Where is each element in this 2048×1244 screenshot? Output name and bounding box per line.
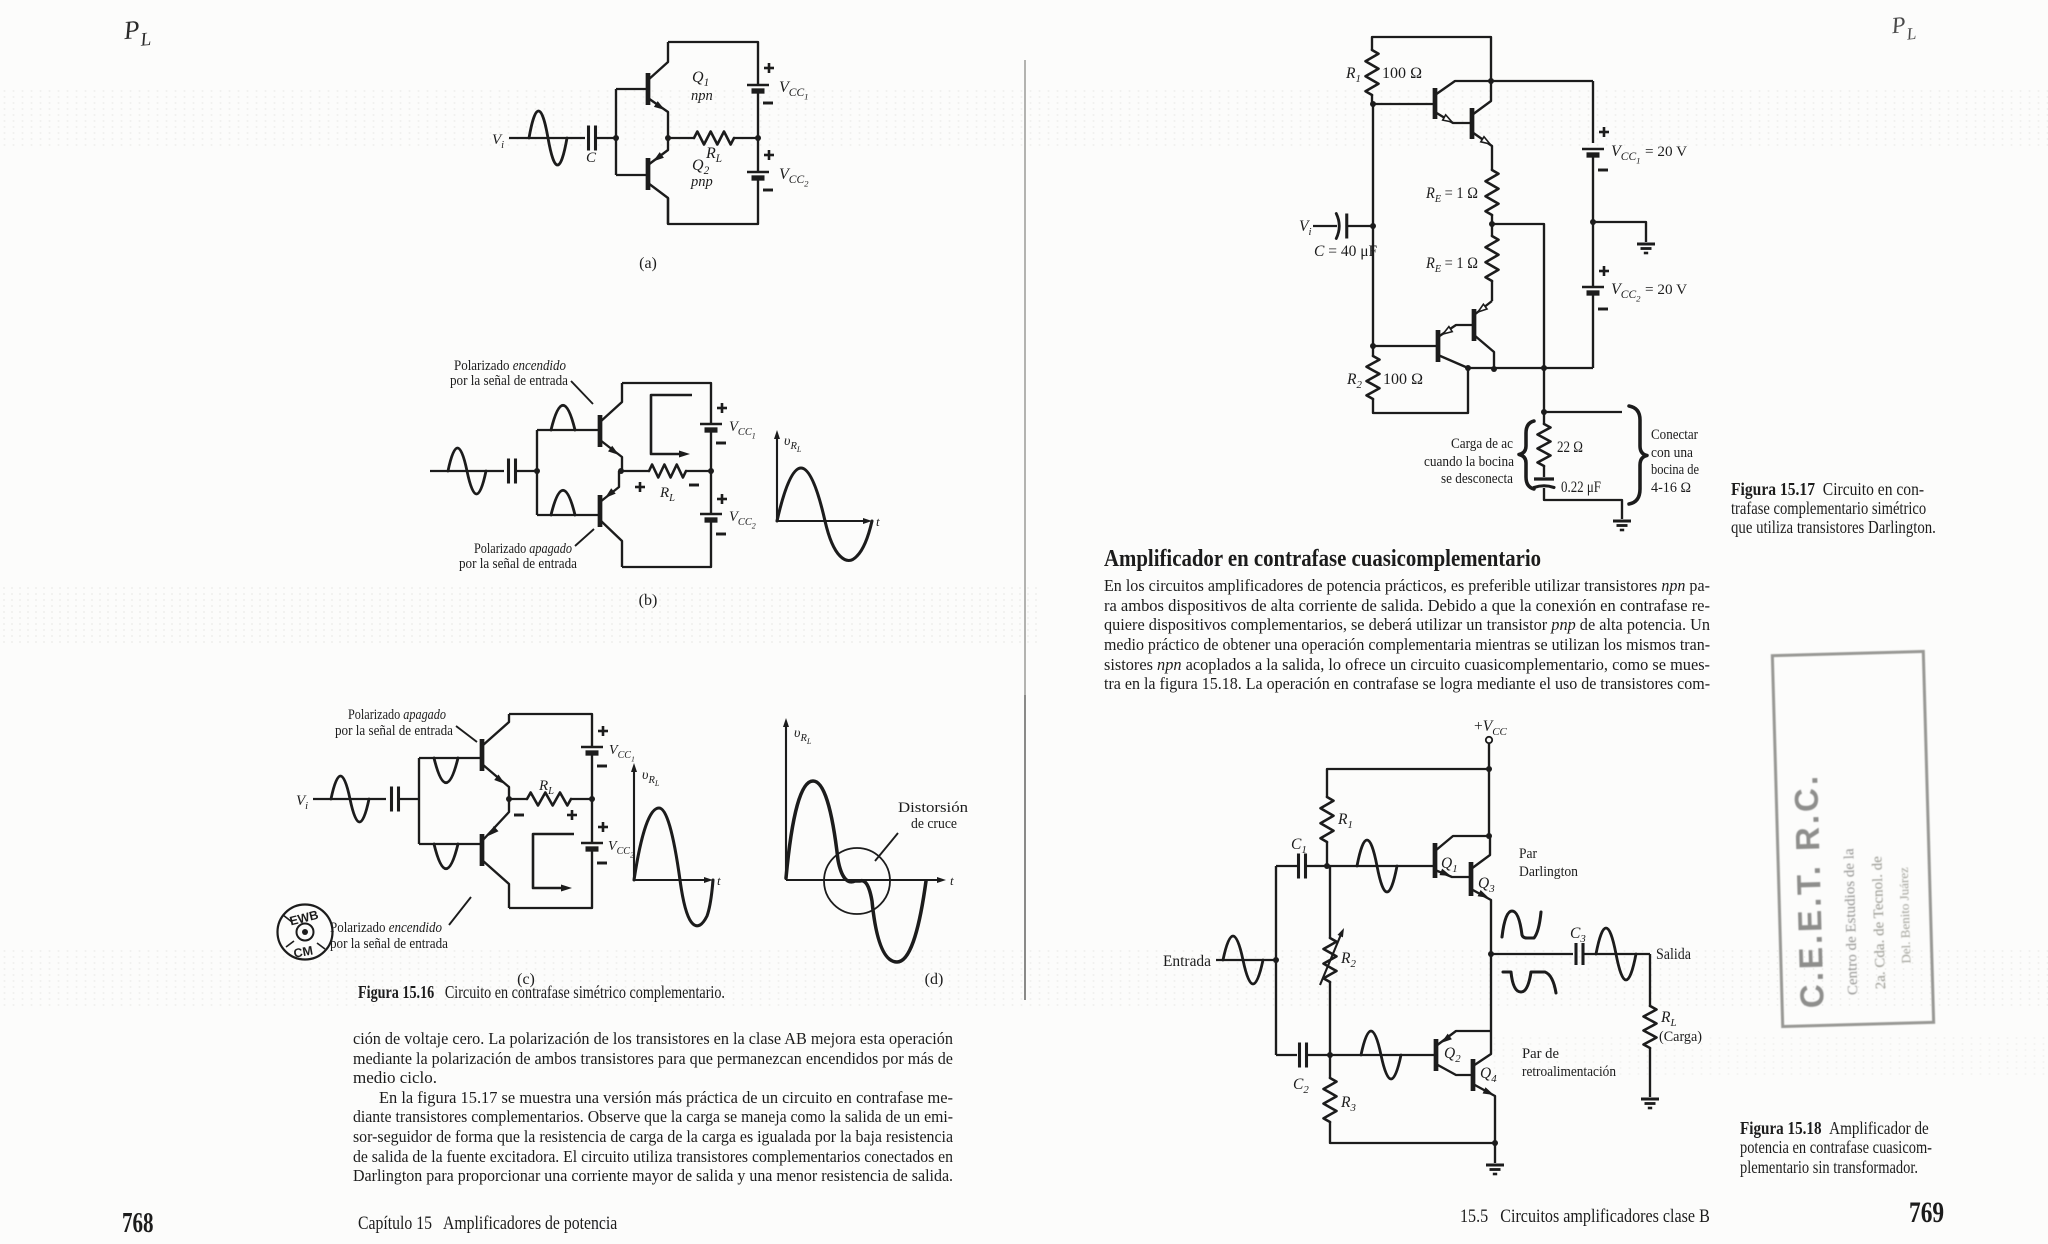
f18 supply terminal circle [1486,737,1492,743]
f18 positive half waveform at output [1502,911,1541,938]
scanner noise band lower [0,948,2048,1006]
f17 resistor RE upper [1486,170,1499,215]
svg-text:R2: R2 [1346,371,1362,391]
fig(b) transistor Q2 emitter lead with arrow [600,471,619,502]
fig(c) minus sign VCC2 [597,862,607,865]
scanner noise band right of fig 15.18 [1490,1035,2048,1075]
fig(c) current loop arrow [533,834,574,888]
library rubber stamp (faint, rotated) [1771,650,1935,1028]
fig(c) graph: time axis [634,879,707,881]
svg-text:RE = 1 Ω: RE = 1 Ω [1425,255,1478,275]
f17 wire 22 ohm to cap [1543,466,1545,477]
handwritten mark P_L top-right [1890,11,1917,46]
fig(a) wire: upper base branch [616,88,646,90]
f18 sine after C3 [1596,928,1636,980]
f17 node: Q2 base node [1370,343,1376,349]
fig(a) transistor Q1 (npn): base bar [646,73,651,105]
fig(b) wire RL to right bus [686,470,711,472]
svg-text:retroalimentación: retroalimentación [1522,1064,1616,1080]
f18 ground (load) [1641,1097,1659,1100]
f18 negative half waveform at output [1503,972,1556,993]
fig(c) transistor Q2 (pnp): base bar [480,834,485,866]
f17 wire R1 bottom to base node [1371,95,1373,104]
f18 Q4 collector lead [1473,1031,1491,1066]
f18 R2 wiper arrow [1320,932,1342,985]
fig(c) wire right bus middle [591,753,593,843]
svg-text:C2: C2 [1293,1076,1309,1096]
fig(c) battery VCC2 [581,842,603,845]
EWB disc hatch lines [283,915,292,922]
svg-text:100 Ω: 100 Ω [1383,371,1423,388]
fig(b) upper half-sine pulse (positive) [551,405,575,430]
f17 wire speaker tap to bracket [1544,411,1622,413]
fig(d) distorted sine waveform with crossover flat [786,781,926,962]
f17 wire base node to Q2a [1373,345,1438,347]
fig(c) graph: vertical axis [633,769,635,880]
svg-text:C3: C3 [1570,925,1586,945]
fig(c) coupling capacitor [390,787,393,812]
f17 wire: right bus [1592,81,1594,143]
f17 transistor Q2a (pnp darlington input): base bar [1436,330,1441,362]
fig(a) minus sign of VCC2 [763,189,773,192]
f17 transistor Q1b (npn darlington output): base bar [1470,108,1475,139]
f18 wire R3 to bottom rail [1330,1122,1495,1143]
fig(c) node: output junction [506,796,512,802]
f17 battery VCC1 [1582,148,1604,151]
svg-text:por la señal de entrada: por la señal de entrada [335,723,453,739]
svg-text:Darlington: Darlington [1519,864,1578,880]
svg-text:R1: R1 [1345,65,1361,85]
f18 wire base node to R2 [1329,866,1331,938]
svg-text:4-16 Ω: 4-16 Ω [1651,480,1691,496]
f17 plus sign VCC1 [1599,131,1609,134]
caption figura 15.17 [1731,480,1980,536]
f18 Q3 collector lead [1471,836,1490,869]
f17 node: output node [1489,221,1495,227]
fig(a) battery VCC1 [747,84,769,87]
f17 Q1b collector lead [1472,81,1491,115]
f17 input wire Vi to capacitor [1313,225,1337,227]
fig(b) minus sign VCC2 [716,533,726,536]
f18 sine between C2 and Q2 [1361,1031,1401,1079]
f18 node: Q1 base node [1324,863,1330,869]
svg-text:(a): (a) [639,255,657,272]
f17 wire to ground stub [1593,222,1646,242]
svg-text:VCC2: VCC2 [729,509,756,531]
fig(b) node: output junction [618,468,624,474]
f17 Q2a emitter lead with arrow [1438,325,1474,337]
f18 node: output node [1488,951,1494,957]
svg-text:Q2: Q2 [1444,1045,1461,1065]
fig(b) graph sine waveform [777,468,872,561]
fig(b) wire: input bus vertical [536,430,538,515]
f18 wire junction to Q2 with sine [1330,1054,1434,1056]
fig(a) input wire from Vi to capacitor C [509,137,585,139]
fig(c) transistor Q2 emitter lead with arrow [482,799,509,841]
fig(a) input sine symbol [529,111,567,165]
f17 minus sign VCC1 [1598,169,1608,172]
fig(a) transistor Q2 (pnp): base bar [646,158,651,190]
handwritten mark P_L top-left [122,14,152,53]
f18 resistor RL (load) [1644,1006,1657,1048]
f17 wire: lower collector rail [1468,367,1593,369]
svg-text:t: t [717,873,721,888]
f18 transistor Q1 (npn): base bar [1433,843,1438,878]
fig(b) battery VCC2 [700,513,722,516]
svg-text:R1: R1 [1337,811,1353,831]
f17 coupling capacitor C 40uF [1336,214,1339,239]
f18 node: top rail junction [1486,766,1492,772]
fig(a) node: right bus output junction [755,135,761,141]
f17 Q1a emitter lead with arrow [1435,112,1470,123]
f18 wire left bus corner to C2 [1276,1054,1297,1056]
fig(b) input wire [430,470,504,472]
fig(c) wire capacitor to bus [398,798,419,800]
f18 Q4 emitter lead with arrow [1473,1084,1495,1143]
svg-text:Entrada: Entrada [1163,953,1211,970]
svg-text:Distorsión: Distorsión [898,800,969,816]
svg-text:VCC2: VCC2 [1611,281,1641,304]
f18 resistor R1 [1321,797,1334,842]
f18 wire rail to ground [1494,1143,1496,1163]
svg-text:Polarizado encendido: Polarizado encendido [330,920,442,936]
svg-text:Polarizado apagado: Polarizado apagado [474,541,572,557]
svg-text:por la señal de entrada: por la señal de entrada [330,936,448,952]
fig(b) plus sign VCC2 [717,498,727,501]
caption figura 15.18 [1740,1119,1979,1177]
svg-text:υRL: υRL [642,768,660,788]
svg-text:VCC2: VCC2 [608,839,634,860]
f18 node: C2/R3 junction [1327,1052,1333,1058]
f17 wire RE upper to output node [1491,215,1493,224]
fig(a) wire: lower base branch [616,174,646,176]
svg-text:npn: npn [691,88,713,104]
svg-text:VCC1: VCC1 [779,79,809,102]
f17 plus sign VCC2 [1599,270,1609,273]
svg-text:R2: R2 [1340,950,1356,970]
f17 ground (supply midpoint) [1637,242,1655,245]
fig(b) resistor RL [649,465,686,478]
fig(a) minus sign of VCC1 [763,102,773,105]
f18 wire C2 to junction [1307,1054,1330,1056]
svg-text:por la señal de entrada: por la señal de entrada [450,373,568,389]
f17 wire base node to Q1a [1373,103,1434,105]
fig(c) input sine symbol [331,776,369,822]
svg-text:VCC1: VCC1 [729,419,756,441]
fig(a) node: input junction [613,135,619,141]
svg-text:Polarizado apagado: Polarizado apagado [348,707,446,723]
fig(a) wire resistor RL to right bus [734,137,758,139]
fig(a) transistor Q2 collector lead [648,183,668,224]
fig(b) transistor Q2 (pnp): base bar [598,495,603,527]
f17 wire snubber to ground [1544,488,1622,519]
f17 node: rail crossing junction [1541,365,1547,371]
fig(b) input sine symbol [448,448,486,494]
svg-text:Q4: Q4 [1480,1065,1497,1085]
page gutter line [1024,60,1026,695]
f17 wire right bus bottom [1592,293,1594,368]
fig(b) transistor Q2 collector lead [600,520,622,567]
fig(c) lower half-sine pulse (negative) [434,844,458,869]
f18 transistor Q3 (npn power): base bar [1469,862,1474,896]
f17 wire: left bus [1372,104,1374,346]
f18 transistor Q4 (npn power): base bar [1471,1059,1476,1091]
f17 transistor Q1a (npn darlington input): base bar [1433,88,1438,119]
svg-text:C = 40 μF: C = 40 μF [1314,243,1378,260]
f17 wire output node to RE lower [1491,224,1493,236]
f17 node: Q1 base node [1370,101,1376,107]
fig(b) wire: lower base branch [537,514,598,516]
fig(c) minus sign at RL [514,814,524,817]
svg-text:100 Ω: 100 Ω [1382,65,1422,82]
f18 wire C3 to salida corner with sine [1583,953,1650,955]
fig(d) graph: time axis [786,879,940,881]
f17 Q2b collector lead [1474,335,1494,369]
f18 capacitor C3 [1574,943,1577,965]
f18 input sine symbol [1223,936,1263,984]
svg-text:Vi: Vi [492,132,504,151]
fig(c) annotation pointer line 2 [449,897,471,925]
svg-text:(d): (d) [925,971,944,988]
fig(c) transistor Q1 (npn): base bar [480,739,485,771]
f18 input wire with sine [1216,959,1276,961]
fig(b) wire output node to RL [622,470,649,472]
f17 node: Vi junction [1370,223,1376,229]
svg-text:Conectar: Conectar [1651,427,1698,443]
svg-text:C1: C1 [1291,836,1307,856]
fig(c) wire: input bus vertical [418,758,420,844]
right page heading [1104,546,1608,573]
f18 wire R1 to base node [1326,842,1328,866]
fig(a) transistor Q2 emitter lead with arrow [648,138,668,165]
svg-text:= 20 V: = 20 V [1645,143,1687,160]
EWB CM compact-disc icon [278,905,333,960]
fig(c) resistor RL [527,793,571,806]
f18 wire output to C3 [1491,953,1573,955]
svg-text:cuando la bocina: cuando la bocina [1424,454,1514,470]
svg-text:bocina de: bocina de [1651,462,1699,478]
fig(c) transistor Q1 emitter lead with arrow [482,764,509,799]
f18 node: entrada junction [1273,957,1279,963]
caption figura 15.16 [358,982,825,1003]
f18 capacitor C1 [1297,854,1300,879]
fig(c) wire: upper base branch [419,757,480,759]
svg-text:VCC2: VCC2 [779,166,809,189]
fig(b) current loop arrow [651,395,692,454]
f17 snubber capacitor 0.22 uF [1534,477,1554,480]
svg-text:RL: RL [705,145,722,165]
f18 Q2 emitter lead with arrow [1436,1031,1491,1046]
fig(c) wire: top supply rail [509,714,592,747]
svg-text:Polarizado encendido: Polarizado encendido [454,358,566,374]
f18 wire VCC vertical upper [1488,769,1490,836]
fig(b) input coupling capacitor [507,459,510,484]
fig(a) wire: input bus vertical [615,89,617,175]
fig(c) graph sine waveform [634,808,713,926]
f17 Q2a collector lead [1438,355,1468,368]
f18 wire junction to R3 [1329,1055,1331,1078]
f17 wire RE lower to Q2b emitter [1491,281,1493,301]
svg-text:t: t [950,873,954,888]
f18 wire base node to Q1 [1327,865,1433,867]
svg-text:RL: RL [1660,1009,1677,1029]
fig(a) battery VCC2 [747,171,769,174]
fig(a) plus sign of VCC2 [764,154,774,157]
fig(a) wire between batteries right bus [757,91,759,172]
svg-text:de cruce: de cruce [911,816,957,832]
fig(c) battery VCC1 [581,746,603,749]
f18 wire: top rail [1327,769,1489,797]
f17 wire node to 22 ohm [1543,412,1545,424]
fig(a) transistor Q1 collector lead [648,42,668,80]
svg-text:RE = 1 Ω: RE = 1 Ω [1425,185,1478,205]
svg-text:0.22 μF: 0.22 μF [1561,479,1601,496]
fig(b) wire: upper base branch [537,429,598,431]
f17 ground (snubber) [1613,519,1631,522]
f17 resistor R1 [1366,50,1379,95]
svg-text:R3: R3 [1340,1094,1356,1114]
f18 variable resistor R2 [1324,938,1337,982]
svg-text:VCC1: VCC1 [1611,143,1641,166]
fig(c) wire output node to RL [509,798,527,800]
f18 Q1 emitter lead with arrow [1435,870,1470,877]
fig(a) transistor Q1 emitter lead with arrow [648,98,668,138]
f18 ground (main) [1486,1163,1504,1166]
f17 wire R2 bottom loop [1373,368,1468,413]
fig(a) wire: top supply rail [668,42,758,85]
fig(a) wire capacitor to input node [596,137,616,139]
f17 battery VCC2 [1582,286,1604,289]
fig(b) wire: bottom supply rail [622,520,711,567]
fig(c) input wire [313,798,386,800]
fig(b) plus sign at RL [635,486,645,489]
fig(c) plus sign VCC2 [598,826,608,829]
left page footer: page number 768 [122,1208,164,1240]
svg-text:(b): (b) [639,592,658,609]
f17 Q1a collector lead [1435,81,1491,95]
svg-text:se desconecta: se desconecta [1441,471,1513,487]
right page body paragraph [1104,576,1710,694]
svg-text:t: t [876,514,880,529]
svg-text:22 Ω: 22 Ω [1557,439,1583,456]
svg-text:C: C [586,150,597,166]
left page body paragraph [353,1029,954,1186]
fig(b) wire: top supply rail [622,383,711,424]
svg-text:con una: con una [1651,445,1693,461]
f18 wire R2 to C2 node [1329,982,1331,1055]
fig(b) wire capacitor to bus [516,470,537,472]
fig(c) wire: bottom supply rail [509,849,592,908]
fig(c) minus sign VCC1 [597,765,607,768]
f18 Q2 collector lead [1436,1064,1471,1075]
f18 capacitor C2 [1298,1043,1301,1068]
f18 sine between C1 and Q1 [1357,840,1397,892]
svg-text:VCC1: VCC1 [609,743,635,764]
fig(b) transistor Q1 emitter lead with arrow [600,440,622,471]
fig(b) transistor Q1 collector lead [600,383,622,422]
f17 node: speaker tap node [1541,409,1547,415]
fig(c) plus sign at RL [567,814,577,817]
fig(b) node: input junction [534,468,540,474]
f17 Q1b emitter lead with arrow [1472,132,1492,170]
f17 node: collector rail left junction [1465,365,1471,371]
fig(d) crossover circle [824,848,890,914]
svg-text:pnp: pnp [690,174,713,190]
fig(b) lower half-sine pulse (positive) [551,490,575,515]
svg-text:Salida: Salida [1656,946,1691,963]
f17 node: right bus center [1590,219,1596,225]
f17 Q2b emitter lead with arrow [1474,301,1492,315]
f17 right brace for speaker note [1629,406,1647,504]
fig(d) graph: vertical axis [785,724,787,880]
fig(d) annotation pointer line [875,833,898,861]
fig(b) battery VCC1 [700,423,722,426]
f18 transistor Q2 (pnp): base bar [1434,1039,1439,1071]
fig(c) upper half-sine pulse (negative) [434,758,458,783]
fig(b) wire right bus middle [710,430,712,514]
fig(c) annotation pointer line [456,726,477,742]
svg-text:υRL: υRL [794,726,812,746]
svg-text:Vi: Vi [1299,218,1311,238]
f18 node: ground rail junction [1492,1140,1498,1146]
f18 node: collector tie [1486,833,1492,839]
fig(c) transistor Q2 collector lead [482,860,509,908]
f18 wire C1 to base node with sine [1306,865,1327,867]
right page footer: page number 769 [1909,1196,1954,1230]
svg-text:(Carga): (Carga) [1659,1029,1702,1045]
f17 wire right bus between VCC1 and node [1592,155,1594,287]
right page footer: section title [1460,1206,1755,1228]
svg-text:EWB: EWB [288,908,320,929]
f18 resistor R3 [1324,1078,1337,1122]
fig(a) wire output node to resistor RL [668,137,694,139]
scanner noise band top [0,88,2048,148]
f17 wire: top rail [1372,37,1491,81]
f17 wire capacitor to bus [1347,225,1373,227]
fig(c) transistor Q1 collector lead [482,714,509,746]
f18 wire: left input bus [1275,866,1277,1055]
fig(a) coupling capacitor C [587,126,590,151]
fig(b) annotation pointer line [571,381,593,404]
fig(b) plus sign VCC1 [717,407,727,410]
f17 resistor RE lower [1486,236,1499,281]
fig(b) graph: time axis [777,520,866,522]
fig(c) node: right bus junction [589,796,595,802]
svg-text:Carga de ac: Carga de ac [1451,436,1513,452]
svg-text:Par de: Par de [1522,1046,1559,1062]
f17 transistor Q2b (pnp darlington output): base bar [1472,309,1477,341]
svg-text:Par: Par [1519,846,1537,862]
fig(b) minus sign VCC1 [716,442,726,445]
fig(a) node: emitter output junction [665,135,671,141]
svg-text:υRL: υRL [784,434,802,454]
svg-text:+VCC: +VCC [1474,718,1508,738]
f18 wire output node down to Q2/Q4 node [1490,954,1492,1031]
fig(c) wire: lower base branch [419,843,480,845]
fig(b) minus sign at RL [689,484,699,487]
f18 wire salida corner down to RL [1649,954,1651,1006]
f17 wire collector node to right bus [1491,80,1593,82]
f17 minus sign VCC2 [1598,308,1608,311]
svg-text:por la señal de entrada: por la señal de entrada [459,556,577,572]
fig(b) node: right bus junction [708,468,714,474]
svg-text:Vi: Vi [296,793,308,812]
fig(c) plus sign VCC1 [598,730,608,733]
f17 wire output node to speaker column [1492,224,1544,412]
f18 wire terminal to top rail [1488,743,1490,769]
left page footer: chapter title [358,1213,670,1235]
f17 resistor 22 ohm snubber [1538,424,1551,466]
